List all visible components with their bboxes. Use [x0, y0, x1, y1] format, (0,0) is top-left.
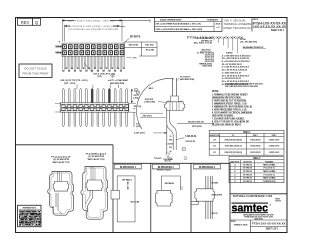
- svg-text:1-XXXX-XX-XX: 1-XXXX-XX-XX: [250, 152, 261, 154]
- svg-text:±.0X TY = X° MAX SWAY: ±.0X TY = X° MAX SWAY: [108, 79, 128, 82]
- svg-text:.XXX [.XX]: .XXX [.XX]: [142, 115, 152, 117]
- svg-text:PROPRIETARY NOTE: PROPRIETARY NOTE: [23, 206, 36, 209]
- svg-text:± X°: ± X°: [216, 27, 219, 29]
- svg-text:SHEET 1 OF 1: SHEET 1 OF 1: [271, 29, 284, 32]
- svg-text:[.XX]: [.XX]: [136, 126, 141, 128]
- svg-text:(TOL NONCUM ±.0XX [.XX]) REF T: (TOL NONCUM ±.0XX [.XX]) REF TO POSITION…: [68, 29, 119, 31]
- svg-text:[X.XX]: [X.XX]: [168, 143, 174, 145]
- svg-text:LEAD STYLE: LEAD STYLE: [230, 161, 239, 164]
- svg-text:ROW 2: ROW 2: [272, 135, 277, 137]
- svg-text:-X = XXX XX XX & X-XXX-XX-X: -X = XXX XX XX & X-XXX-XX-X: [221, 67, 249, 69]
- svg-text:.XX [.XX]: .XX [.XX]: [145, 49, 154, 51]
- svg-text:PLOT SCALE: 1=1.XXX/ DW SCALE:: PLOT SCALE: 1=1.XXX/ DW SCALE: 1=.XXX: [233, 195, 272, 198]
- svg-text:REF DEPT B: REF DEPT B: [130, 37, 141, 39]
- svg-text:ROW 1: ROW 1: [253, 135, 258, 137]
- svg-text:TAPE & REEL: TAPE & REEL: [263, 163, 277, 166]
- svg-text:XX THRU XX: XX THRU XX: [243, 181, 252, 183]
- svg-text:.XX [.XX]: .XX [.XX]: [145, 45, 154, 47]
- svg-text:UNLESS OTHERWISE NOTED: UNLESS OTHERWISE NOTED: [160, 20, 182, 22]
- svg-text:AN X.XX: AN X.XX: [212, 212, 219, 215]
- svg-text:PLATING: PLATING: [226, 51, 233, 54]
- svg-text:7-XXX-XX-XX: 7-XXX-XX-XX: [185, 136, 197, 138]
- svg-text:FORMS 07-28-98: FORMS 07-28-98: [234, 224, 248, 226]
- svg-text:FT-XWIDTH XN-TL: FT-XWIDTH XN-TL: [263, 181, 277, 183]
- svg-text:TAB TO AN XX TY-XX: TAB TO AN XX TY-XX: [52, 161, 69, 164]
- svg-text:1-XXXX-XX-XX: 1-XXXX-XX-XX: [269, 152, 280, 154]
- svg-text:XXXX ± [.XXX] FOUR PLACE DECIM: XXXX ± [.XXX] FOUR PLACE DECIMALS ± .0XX…: [156, 28, 203, 31]
- svg-text:TAPE & REEL: TAPE & REEL: [263, 170, 277, 173]
- svg-text:-XX = XX XX XX & X-XXX-XX-X: -XX = XX XX XX & X-XXX-XX-X: [221, 75, 249, 77]
- svg-text:-XX = XX XX XX & X-XXX-XX: -XX = XX XX XX & X-XXX-XX: [221, 70, 247, 72]
- svg-text:.0XX [.XX]: .0XX [.XX]: [128, 45, 138, 47]
- svg-text:FT-(xx)/XXX-(-)(xx)-F: FT-(xx)/XXX-(-)(xx)-F: [86, 153, 107, 155]
- svg-text:1-XXXX-XX-XX: 1-XXXX-XX-XX: [250, 139, 261, 141]
- svg-text:SHEET 1 OF 1: SHEET 1 OF 1: [266, 228, 279, 230]
- svg-text:ANGLES: ANGLES: [216, 22, 221, 25]
- svg-text:SEE TABLE 4: SEE TABLE 4: [165, 182, 175, 185]
- svg-text:XX THRU XX: XX THRU XX: [243, 168, 252, 170]
- svg-text:TYP=.XXX: TYP=.XXX: [154, 158, 162, 160]
- svg-text:(TYP - XX.X): (TYP - XX.X): [64, 83, 76, 85]
- svg-text:-XX = XXX TIN XX & X-XXX-XX: -XX = XXX TIN XX & X-XXX-XX: [221, 58, 249, 60]
- svg-text:XXN.XX [X.XXX.XX]: XXN.XX [X.XXX.XX]: [188, 121, 204, 123]
- svg-text:SEE X: SEE X: [149, 88, 154, 90]
- svg-text:(-XX, -XXX AND XXX): (-XX, -XXX AND XXX): [240, 40, 257, 43]
- svg-text:TAPE & REEL: TAPE & REEL: [263, 177, 277, 180]
- svg-text:AN TAB X: AN TAB X: [212, 182, 219, 185]
- svg-text:XX THRU XX: XX THRU XX: [243, 171, 252, 173]
- svg-text:FOR COMPLETE XXXXX XXXX XX XXX: FOR COMPLETE XXXXX XXXX XX XXXX XXXX: [225, 86, 259, 88]
- svg-text:.XXX: .XXX: [169, 140, 173, 142]
- svg-text:[.XXX/.XXX]: [.XXX/.XXX]: [145, 102, 156, 104]
- svg-text:DWG BY: DWG BY: [231, 221, 236, 223]
- svg-text:XXXXXX .0X [X.X]: XXXXXX .0X [X.X]: [157, 170, 171, 172]
- svg-text:-X = XXXX XXXX XX-X XX: -X = XXXX XXXX XX-X XX: [221, 72, 241, 74]
- svg-text:(ANY DIRECTION): (ANY DIRECTION): [180, 78, 194, 81]
- svg-text:XX THRU XX: XX THRU XX: [243, 174, 252, 176]
- svg-text:(ANY DIRECTION): (ANY DIRECTION): [110, 82, 124, 85]
- svg-text:XXX ± [.XX] THREE PLACE DECIMA: XXX ± [.XX] THREE PLACE DECIMALS ± .0XX …: [156, 23, 202, 26]
- svg-text:1-XXXX-XX-XX: 1-XXXX-XX-XX: [250, 146, 261, 148]
- svg-text:FT-(-)-(xx)-03-(-)-F: FT-(-)-(xx)-03-(-)-F: [51, 156, 71, 158]
- svg-text:TABLE 2: TABLE 2: [253, 157, 261, 160]
- svg-text:TY-X: TY-X: [133, 58, 137, 60]
- svg-text:XXXX XX: XXXX XX: [275, 200, 281, 202]
- svg-text:BELOW LIVE WAVE BY MOST.: BELOW LIVE WAVE BY MOST.: [212, 123, 241, 126]
- svg-text:"A": "A": [232, 134, 235, 137]
- svg-text:.XXX/.XXX [X.XX/X.X]: .XXX/.XXX [X.XX/X.X]: [224, 152, 242, 154]
- svg-text:-X = XX XXXX XXX XX-XX: -X = XX XXXX XXX XX-XX: [221, 78, 241, 80]
- svg-text:FROM THIS PRINT: FROM THIS PRINT: [22, 72, 48, 76]
- svg-text:FT-1-XX-XT-TL: FT-1-XX-XT-TL: [264, 174, 276, 176]
- svg-text:IN-PROCESS 3: IN-PROCESS 3: [199, 165, 215, 169]
- svg-text:(-X) -XX WHF XPXD: (-X) -XX WHF XPXD: [88, 156, 104, 158]
- svg-text:FT-1-XX-XT-TL: FT-1-XX-XT-TL: [264, 168, 276, 170]
- svg-text:No OF POS X .0XX [.XXX] = .0XX: No OF POS X .0XX [.XXX] = .0XX [.XXX]: [68, 26, 118, 28]
- svg-text:[.XX]: [.XX]: [134, 98, 139, 100]
- svg-text:IN-PROCESS 2: IN-PROCESS 2: [158, 165, 174, 169]
- svg-text:XX THRU XX: XX THRU XX: [243, 164, 252, 166]
- svg-text:⌀.0XX [.XX]: ⌀.0XX [.XX]: [134, 132, 145, 135]
- svg-text:(TYP): (TYP): [97, 76, 102, 78]
- svg-text:7-XXX-XX-XX: 7-XXX-XX-XX: [185, 141, 196, 143]
- svg-text:TAB TO AN XX TY-XX: TAB TO AN XX TY-XX: [87, 158, 104, 161]
- svg-text:IN-PROCESS 1: IN-PROCESS 1: [120, 165, 136, 169]
- svg-text:DO NOT SCALE: DO NOT SCALE: [24, 67, 46, 71]
- svg-text:TABLE 1: TABLE 1: [243, 131, 251, 134]
- svg-text:XXXX [X.XX]: XXXX [X.XX]: [192, 126, 202, 128]
- svg-text:SEE TABLE 4: SEE TABLE 4: [122, 179, 132, 182]
- svg-text:FTSH SHOWN: FTSH SHOWN: [163, 159, 173, 161]
- svg-text:-X = XXX XXXX XX & X-XXX-XX-X: -X = XXX XXXX XX & X-XXX-XX-X: [221, 55, 251, 57]
- svg-text:AN [X.X] REF: AN [X.X] REF: [212, 194, 223, 197]
- svg-text:TOLERANCE IN:: TOLERANCE IN:: [207, 19, 218, 22]
- svg-text:XX THRU XX: XX THRU XX: [243, 178, 252, 180]
- svg-text:(No OF POS X .0XX [.XXX]) + .0: (No OF POS X .0XX [.XXX]) + .0XX [.XX]: [68, 21, 115, 23]
- svg-text:MIXED TECHNOLOGY: MIXED TECHNOLOGY: [224, 26, 253, 30]
- svg-text:1-XXXX-XX-XX: 1-XXXX-XX-XX: [269, 146, 280, 148]
- svg-text:REV: REV: [21, 20, 30, 25]
- svg-text:AN D +0.NE: AN D +0.NE: [131, 201, 140, 204]
- svg-text:XXX: XXX: [169, 147, 172, 149]
- svg-text:FTSH-1XX-XX-XX-XX-XX: FTSH-1XX-XX-XX-XX-XX: [252, 222, 286, 226]
- svg-text:(XX, XXX, X & X): (XX, XXX, X & X): [194, 43, 213, 45]
- svg-text:1-XXXX-XX-XX: 1-XXXX-XX-XX: [269, 139, 280, 141]
- svg-text:.XXX/.XXX [.XX/X.X]: .XXX/.XXX [.XX/X.X]: [225, 146, 242, 148]
- svg-text:LEAD STYLE: LEAD STYLE: [210, 134, 220, 137]
- svg-text:UNLOADED, SEE PLATING OPTIONS: UNLOADED, SEE PLATING OPTIONS XX XXX XXX…: [225, 82, 263, 85]
- svg-text:.XXX/.XXX [X.XX/X.X]: .XXX/.XXX [X.XX/X.X]: [224, 139, 242, 141]
- svg-text:(-X) -XX WHF XPXD: (-X) -XX WHF XPXD: [53, 159, 69, 161]
- svg-text:(XXXX XXXX): (XXXX XXXX): [203, 66, 213, 68]
- svg-text:-XX = XX TIN XXXX XX-XX: -XX = XX TIN XXXX XX-XX: [221, 64, 242, 66]
- svg-text:-X = XX GOLD XX & X-XXX-XX-X: -X = XX GOLD XX & X-XXX-XX-X: [221, 61, 250, 63]
